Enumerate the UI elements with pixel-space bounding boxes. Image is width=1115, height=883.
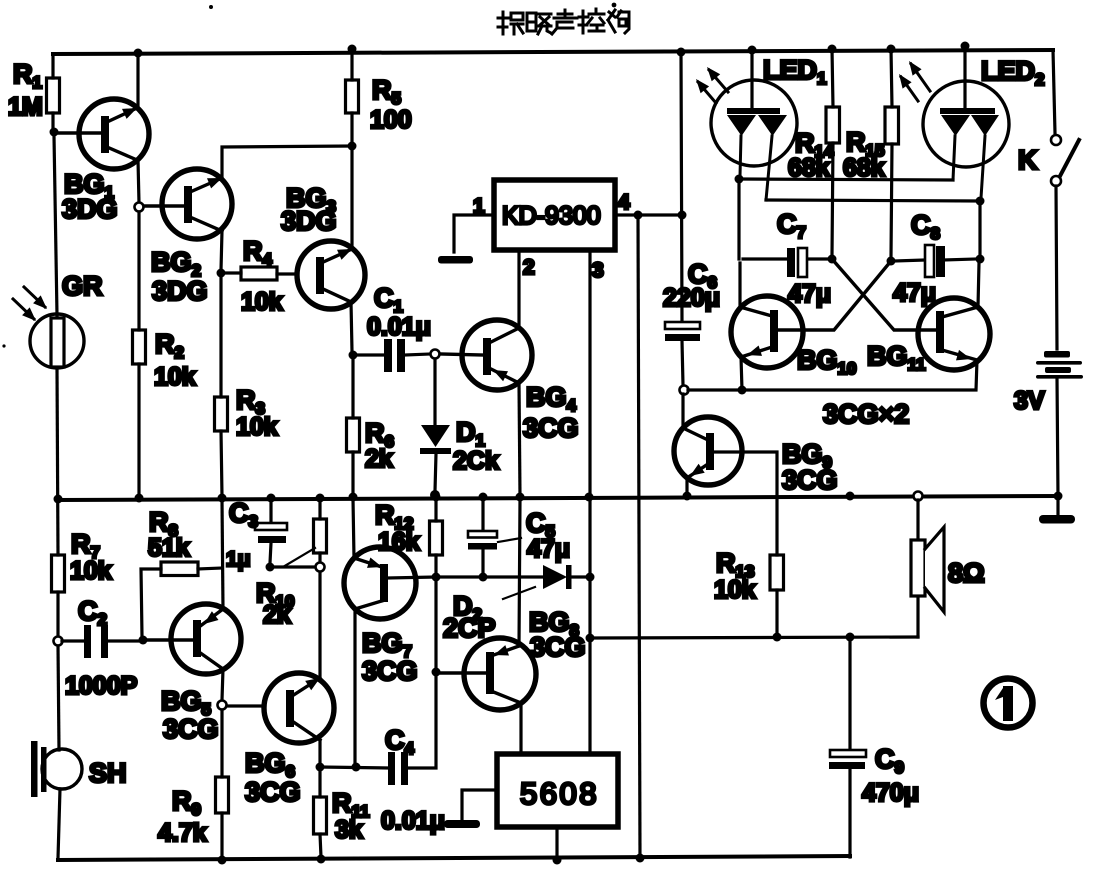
node: R5 bottom junction bbox=[348, 142, 357, 151]
wire: BG7 base line to D2 bbox=[388, 577, 543, 578]
speck noise bbox=[209, 5, 213, 9]
wire: BG5 emitter up to mid rail bbox=[222, 500, 223, 609]
ground at pin 1 bbox=[438, 256, 473, 264]
node: C6/emitter-rail/BG9 ring bbox=[680, 386, 689, 395]
5608 ground pin bbox=[462, 790, 497, 819]
node: C3 bottom junction bbox=[266, 563, 275, 572]
pin 2 wire down to BG4 collector bbox=[517, 250, 520, 328]
resistor R5 bbox=[350, 49, 353, 142]
svg-text:8Ω: 8Ω bbox=[948, 558, 985, 588]
node: C2/R8/BG5 base junction bbox=[139, 636, 148, 645]
wire: ring to BG6 base bbox=[227, 704, 264, 707]
svg-text:470μ: 470μ bbox=[862, 779, 919, 807]
wire: BG1 emitter down to BG2 base node bbox=[138, 160, 139, 203]
node: D2 cathode on pin3 wire bbox=[586, 573, 595, 582]
D2 label pointer bbox=[503, 587, 535, 599]
resistor R14 bbox=[832, 49, 833, 255]
title 报晓声控狗 (stylized strokes) bbox=[498, 9, 629, 34]
wire: BG8 base node down to C4 right bbox=[409, 676, 436, 768]
svg-text:3: 3 bbox=[592, 259, 604, 282]
wire: node down to R3 bbox=[219, 277, 222, 397]
svg-text:10k: 10k bbox=[241, 288, 283, 316]
wire: SH to bottom rail bbox=[58, 789, 60, 858]
pin 4 wire to C6 line bbox=[615, 213, 682, 216]
figure mark circled 1 bbox=[984, 679, 1033, 728]
resistor R13 bbox=[770, 555, 784, 590]
svg-text:3DG: 3DG bbox=[152, 276, 208, 306]
wire: bottom rail bbox=[58, 856, 850, 860]
svg-text:3CG: 3CG bbox=[530, 632, 586, 662]
wire: cross line LED1-LED2 left legs bbox=[739, 179, 953, 180]
transistor BG10 bbox=[731, 296, 803, 368]
svg-text:100: 100 bbox=[370, 106, 412, 134]
wire: BG2 collector up and over to R5 bottom bbox=[222, 146, 352, 178]
node: C2 left ring bbox=[54, 637, 63, 646]
resistor R1 bbox=[51, 54, 54, 130]
transistor BG8 bbox=[464, 638, 536, 710]
transistor BG11 bbox=[918, 298, 990, 370]
svg-text:2Ck: 2Ck bbox=[453, 447, 499, 475]
node: R1/GR/BG1 base junction bbox=[50, 128, 59, 137]
transistor BG5 bbox=[171, 604, 241, 674]
transistor BG1 bbox=[79, 99, 149, 169]
resistor R15 bbox=[891, 49, 892, 257]
svg-text:3CG: 3CG bbox=[245, 777, 301, 807]
svg-text:51k: 51k bbox=[148, 534, 190, 562]
resistor R12 bbox=[434, 497, 437, 573]
svg-text:2k: 2k bbox=[365, 445, 393, 473]
node: C5 bottom on base line bbox=[479, 573, 488, 582]
node: C8 left / R15 bottom bbox=[887, 257, 896, 266]
node: BG6 emitter / R11 / C4 junction bbox=[316, 763, 325, 772]
wire: C6 top line from top rail bbox=[681, 52, 682, 322]
node: output line left end on pin3 wire bbox=[586, 634, 595, 643]
wire: junction down to GR bbox=[54, 136, 57, 315]
capacitor C6 bbox=[665, 322, 700, 329]
svg-text:10k: 10k bbox=[154, 363, 196, 391]
wire: pin4 branch down to bottom rail bbox=[638, 215, 640, 858]
node: BG8 base junction bbox=[432, 668, 441, 677]
node: C9 tap on output line bbox=[846, 633, 855, 642]
wire: BG9 base to R13 bbox=[714, 452, 777, 555]
transistor BG7 bbox=[344, 547, 416, 619]
resistor R8 bbox=[141, 569, 161, 636]
node: LED1 cathode / C7 line bbox=[735, 175, 744, 184]
wire: BG6 emitter down to C4 node bbox=[318, 740, 321, 763]
svg-text:47μ: 47μ bbox=[893, 279, 936, 307]
svg-text:K: K bbox=[1018, 145, 1038, 175]
svg-text:LED1: LED1 bbox=[763, 55, 826, 88]
5608 bottom pin to rail bbox=[555, 827, 558, 858]
wire: BG5 collector down to ring bbox=[222, 669, 223, 700]
speaker 8 ohm bbox=[914, 492, 923, 501]
wire: battery to mid rail bbox=[1057, 378, 1058, 496]
svg-text:2: 2 bbox=[523, 256, 535, 279]
wire: BG6 collector up to R10 ring bbox=[318, 571, 321, 678]
wire: down to microphone SH bbox=[58, 646, 59, 750]
node: LED2 right leg junction bbox=[976, 197, 985, 206]
wire: cross-couple C7 right to BG11 base bbox=[832, 259, 937, 330]
LED1 bbox=[750, 50, 753, 110]
node: D1 to mid rail junction bbox=[430, 490, 440, 500]
R10 label pointer bbox=[283, 548, 315, 567]
ground under battery bbox=[1056, 498, 1059, 514]
svg-text:5608: 5608 bbox=[520, 776, 599, 811]
transistor BG6 bbox=[264, 673, 334, 743]
wire: top +V rail bbox=[53, 50, 1053, 54]
pin 1 bbox=[454, 215, 494, 252]
wire: LED2 leg down to C8/BG11 bbox=[978, 201, 980, 307]
capacitor C9 bbox=[848, 637, 851, 857]
resistor R6 bbox=[351, 359, 354, 494]
wire: R12 node down to BG8 base bbox=[434, 581, 437, 668]
transistor BG4 bbox=[462, 320, 532, 390]
battery 3V bbox=[1036, 351, 1083, 379]
capacitor C4 bbox=[320, 767, 388, 768]
resistor R9 bbox=[216, 777, 229, 813]
node: C7 right / R14 bottom bbox=[828, 255, 837, 264]
node: pin4/C6 junction bbox=[678, 211, 687, 220]
node: R13 bottom on output line bbox=[773, 633, 782, 642]
transistor BG2 bbox=[162, 169, 232, 239]
capacitor C1 bbox=[357, 354, 430, 355]
svg-text:0.01μ: 0.01μ bbox=[381, 807, 445, 835]
svg-text:10k: 10k bbox=[714, 576, 756, 604]
capacitor C7 bbox=[743, 257, 828, 260]
svg-text:3V: 3V bbox=[1014, 387, 1045, 415]
node: pin4/x638 junction bbox=[634, 211, 643, 220]
wire: BG2 emitter down to R4 node bbox=[221, 231, 222, 270]
capacitor C2 bbox=[62, 639, 140, 642]
svg-text:3CG: 3CG bbox=[523, 413, 579, 443]
C5 label pointer bbox=[498, 538, 521, 542]
node: BG5/BG6 base ring bbox=[218, 701, 227, 710]
svg-text:3DG: 3DG bbox=[281, 206, 337, 236]
resistor R10 bbox=[318, 498, 321, 563]
wire: multivib emitter rail bbox=[688, 360, 977, 390]
svg-text:4: 4 bbox=[618, 191, 630, 214]
diode D2 bbox=[543, 565, 567, 589]
svg-text:3DG: 3DG bbox=[62, 194, 118, 224]
wire: switch to battery bbox=[1056, 186, 1057, 349]
microphone SH bbox=[31, 741, 38, 797]
svg-text:3CG: 3CG bbox=[362, 656, 418, 686]
svg-text:KD-9300: KD-9300 bbox=[502, 202, 601, 230]
wire: ring down to R9 bbox=[220, 710, 223, 777]
resistor R3 bbox=[215, 397, 228, 431]
wire: mid (0V) rail bbox=[58, 496, 1058, 500]
wire: node down to R2 bbox=[137, 212, 140, 330]
diode D1 bbox=[435, 359, 436, 491]
svg-text:0.01μ: 0.01μ bbox=[367, 313, 431, 341]
wire: cross-couple C8 left to BG10 base bbox=[777, 261, 891, 330]
switch K bbox=[1051, 135, 1061, 145]
wire: BG8 emitter up to mid rail bbox=[519, 500, 520, 646]
svg-text:1M: 1M bbox=[8, 93, 43, 121]
svg-text:1000P: 1000P bbox=[65, 672, 137, 700]
node: C1/D1/BG4 base ring bbox=[431, 350, 440, 359]
transistor BG3 bbox=[297, 241, 365, 309]
wire: BG7 collector down to C4 line bbox=[353, 609, 356, 764]
svg-text:10k: 10k bbox=[236, 413, 278, 441]
svg-text:1: 1 bbox=[473, 195, 485, 218]
svg-text:47μ: 47μ bbox=[788, 280, 831, 308]
IC 5608 bbox=[497, 754, 618, 827]
svg-text:2k: 2k bbox=[263, 601, 291, 629]
svg-text:3CG×2: 3CG×2 bbox=[823, 399, 909, 429]
svg-text:47μ: 47μ bbox=[527, 535, 570, 563]
node: BG7 collector on C4 line bbox=[352, 763, 361, 772]
node: C8 right / LED2 / BG11 collector bbox=[976, 255, 985, 264]
node: C1/R6 junction bbox=[349, 351, 358, 360]
wire: GR to mid rail and on to R7 bbox=[57, 368, 58, 555]
svg-text:3k: 3k bbox=[335, 816, 363, 844]
wire: BG3 collector up to R5 node bbox=[350, 150, 353, 249]
node: R12/BG8 vertical on base line bbox=[432, 573, 441, 582]
resistor R2 bbox=[133, 330, 146, 364]
op-amp U1 KD-9300 bbox=[494, 180, 615, 250]
resistor R11 bbox=[318, 767, 321, 797]
svg-text:4.7k: 4.7k bbox=[158, 819, 207, 847]
wire: C3 to R10 ring bbox=[270, 565, 315, 568]
node: R10 bottom ring bbox=[316, 563, 325, 572]
resistor R7 bbox=[52, 555, 65, 592]
junction dots on top rail bbox=[134, 42, 970, 58]
svg-text:220μ: 220μ bbox=[663, 284, 720, 312]
svg-text:3CG: 3CG bbox=[782, 465, 838, 495]
wire: BG4 emitter to mid rail bbox=[519, 383, 520, 496]
svg-text:LED2: LED2 bbox=[981, 56, 1044, 89]
svg-text:68k: 68k bbox=[843, 154, 885, 182]
wire: BG3 emitter down to C1 node bbox=[351, 302, 352, 351]
node: BG2 base ring bbox=[135, 203, 144, 212]
capacitor C3 bbox=[270, 498, 271, 563]
svg-text:68k: 68k bbox=[788, 154, 830, 182]
wire: BG8 collector down to 5608 bbox=[519, 703, 522, 754]
svg-text:GR: GR bbox=[62, 271, 103, 301]
junction dots on mid rail bbox=[54, 492, 1063, 504]
wire: BG7 emitter up to mid rail bbox=[353, 499, 354, 558]
wire: BG1 collector to top rail bbox=[136, 53, 139, 108]
svg-text:3CG: 3CG bbox=[163, 714, 219, 744]
svg-text:SH: SH bbox=[89, 758, 127, 788]
wire: top-right corner down to switch K bbox=[1053, 50, 1055, 133]
pin 3 wire down (through mid rail to 5608) bbox=[588, 250, 591, 754]
resistor R4 bbox=[225, 273, 297, 274]
svg-text:10k: 10k bbox=[70, 557, 112, 585]
wire: cross line LED1 right leg to LED2 node bbox=[766, 200, 980, 201]
GR light arrows bbox=[13, 287, 45, 319]
node: BG2 emitter / R4 / R3 junction bbox=[217, 269, 226, 278]
LED2 bbox=[963, 46, 966, 109]
capacitor C5 bbox=[481, 497, 484, 573]
capacitor C8 bbox=[895, 259, 976, 261]
wire: output line y638 bbox=[590, 637, 918, 638]
transistor BG9 bbox=[674, 417, 742, 485]
node: BG10 emitter on rail bbox=[738, 386, 747, 395]
wire: LED1 left leg to BG10 collector and C7 bbox=[739, 179, 740, 307]
svg-text:1μ: 1μ bbox=[226, 548, 251, 571]
photoresistor GR bbox=[30, 314, 84, 368]
junction dots on bottom rail bbox=[218, 854, 645, 865]
